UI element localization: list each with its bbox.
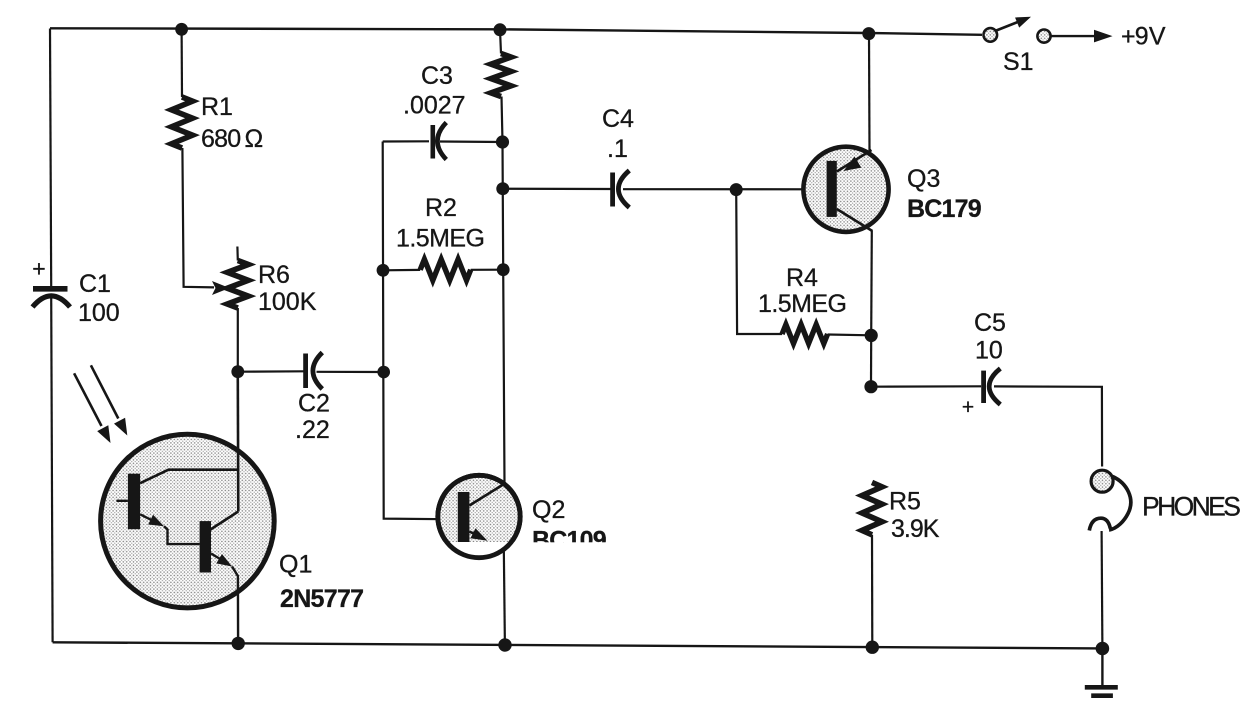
svg-text:2N5777: 2N5777 (280, 585, 363, 613)
wire R1 bottom lead to R6 wiper (182, 148, 214, 287)
wire R2 right lead (471, 269, 504, 271)
svg-text:+: + (32, 256, 45, 282)
wire R2 left lead (383, 269, 420, 272)
svg-text:+9 V: +9 V (1121, 23, 1166, 51)
label Q3 BC179 (907, 165, 981, 223)
wire R6 top stub (236, 247, 239, 261)
svg-text:R2: R2 (425, 194, 457, 222)
svg-text:R5: R5 (889, 488, 921, 516)
resistor R5 (862, 482, 882, 534)
wire C2 left lead (238, 370, 304, 373)
capacitor C4 (613, 171, 630, 208)
phones jack (1089, 470, 1130, 530)
svg-text:+: + (962, 396, 974, 419)
resistor R4 (782, 325, 828, 344)
label Q1 2N5777 (279, 551, 363, 614)
svg-text:C1: C1 (79, 270, 111, 298)
label C1 value (78, 270, 120, 327)
svg-text:10: 10 (975, 337, 1003, 365)
wire left branch vertical (C3/R2 rail down to Q2 base corner) (383, 142, 459, 520)
label R1 value (201, 93, 263, 153)
wire right vertical to C5 node (870, 335, 872, 386)
wire C4 left lead (503, 188, 611, 191)
wire R6 bottom lead (237, 308, 239, 372)
svg-text:100: 100 (78, 299, 120, 327)
svg-text:C3: C3 (421, 62, 453, 90)
node C C2/Q2-base junction (377, 366, 390, 379)
svg-text:3.9K: 3.9K (891, 515, 940, 543)
wire C5 right lead to phones (994, 386, 1102, 466)
node D top-middle junction (494, 23, 507, 36)
wire C3 left lead (383, 140, 429, 142)
label R5 value (889, 488, 940, 544)
node K bottom-right junction (1096, 642, 1110, 656)
wiper arrow into R6 (212, 281, 230, 295)
node A top-left junction (175, 23, 188, 36)
phototransistor Q1 2N5777 (101, 378, 275, 643)
capacitor C1 (32, 256, 70, 308)
label C5 value (974, 309, 1006, 365)
switch S1 (984, 17, 1051, 43)
svg-text:680 Ω: 680 Ω (201, 125, 263, 153)
svg-text:BC179: BC179 (907, 195, 981, 223)
wire R3 top lead (500, 30, 501, 54)
resistor R1 (172, 97, 193, 148)
node B C2 left junction (231, 365, 244, 378)
label R4 value (758, 264, 846, 318)
svg-text:Q2: Q2 (532, 496, 565, 524)
wire bottom rail (53, 642, 1103, 648)
wire middle vertical (junction E down to Q2 collector) (503, 142, 505, 484)
svg-text:R6: R6 (258, 261, 290, 289)
svg-text:C2: C2 (298, 390, 330, 418)
wire R5 bottom lead (871, 535, 873, 647)
svg-text:1.5MEG: 1.5MEG (396, 225, 484, 253)
label Q2 BC109 (526, 496, 622, 562)
wire left vertical lower (51, 296, 52, 642)
node E C3/R3 junction (496, 135, 509, 148)
wire C5 left lead (871, 385, 981, 388)
capacitor C3 (433, 123, 447, 160)
label C3 value (403, 62, 466, 120)
wire C3 right lead (440, 140, 503, 143)
label C4 value (602, 105, 634, 163)
node N bottom junction R5 (866, 641, 879, 654)
wire to +9V with arrow (1051, 30, 1112, 43)
svg-text:C5: C5 (974, 309, 1006, 337)
wire R4 right lead (828, 333, 872, 336)
wire ground stub (1101, 649, 1103, 686)
label R2 value (396, 194, 484, 253)
svg-text:R4: R4 (786, 264, 818, 292)
wire R1 top lead (181, 29, 184, 97)
node R2R R2 right junction (497, 263, 510, 276)
potentiometer R6 (227, 261, 248, 309)
label R6 value (258, 261, 317, 316)
svg-text:1.5MEG: 1.5MEG (758, 290, 846, 318)
wire top rail (50, 28, 982, 35)
capacitor C2 (306, 353, 323, 390)
svg-text:.1: .1 (607, 135, 628, 163)
ground (1085, 687, 1118, 695)
wire phones bottom lead (1100, 531, 1103, 648)
wire C4 right lead to Q3 base (623, 188, 827, 190)
node I R4/collector junction (865, 329, 878, 342)
capacitor C5 (962, 369, 1000, 420)
node J C5 junction (864, 380, 877, 393)
label C2 value (295, 390, 330, 445)
node L bottom junction Q1 (232, 637, 245, 650)
transistor Q2 BC109 (437, 475, 522, 563)
wire R3 bottom lead (502, 97, 503, 143)
node G R4 top junction (730, 183, 743, 196)
svg-text:Q3: Q3 (907, 165, 940, 193)
light arrow 2 (91, 365, 127, 435)
wire R4 left branch (736, 190, 782, 334)
transistor Q3 BC179 (803, 147, 888, 232)
wire Q3 collector down (870, 231, 873, 336)
wire Q2 emitter down (504, 548, 505, 645)
svg-text:PHONES: PHONES (1142, 492, 1240, 522)
node M bottom junction Q2 (498, 638, 511, 651)
wire Q3 emitter to top rail (868, 34, 871, 151)
resistor R2 (420, 259, 471, 280)
svg-text:Q1: Q1 (279, 551, 312, 579)
svg-text:R1: R1 (201, 93, 233, 121)
svg-text:.0027: .0027 (403, 92, 466, 120)
svg-text:100K: 100K (258, 288, 317, 316)
node H top-right junction (862, 27, 875, 40)
node F C4 rail left junction (496, 182, 509, 195)
svg-text:C4: C4 (602, 105, 634, 133)
light arrow 1 (74, 373, 110, 443)
resistor R3 (unlabeled) (491, 54, 511, 97)
wire left vertical upper (50, 29, 51, 287)
wire C2 right lead (317, 371, 384, 373)
svg-text:.22: .22 (295, 416, 330, 444)
svg-text:S1: S1 (1003, 48, 1034, 76)
node R2L R2 left junction (377, 264, 390, 277)
